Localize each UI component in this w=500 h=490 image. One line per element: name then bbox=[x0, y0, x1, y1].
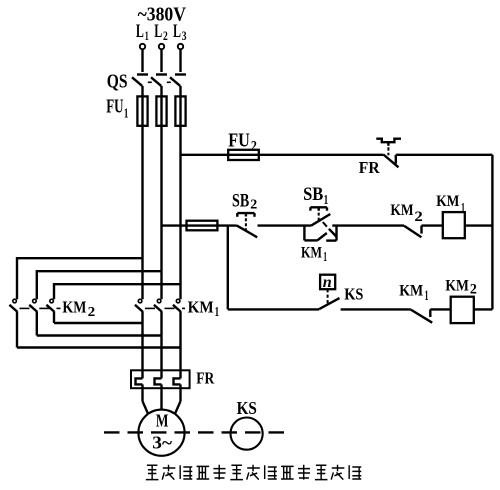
svg-text:KM: KM bbox=[188, 297, 214, 316]
svg-text:2: 2 bbox=[414, 209, 422, 225]
svg-text:1: 1 bbox=[124, 106, 129, 121]
svg-text:KM: KM bbox=[445, 278, 469, 295]
svg-text:KM: KM bbox=[390, 202, 413, 219]
svg-text:n: n bbox=[323, 274, 332, 291]
svg-text:1: 1 bbox=[461, 200, 465, 216]
svg-text:SB: SB bbox=[232, 190, 249, 211]
svg-text:1: 1 bbox=[145, 28, 149, 43]
svg-text:SB: SB bbox=[303, 184, 323, 205]
svg-text:1: 1 bbox=[215, 304, 220, 319]
svg-text:2: 2 bbox=[470, 282, 477, 298]
svg-text:FU: FU bbox=[106, 96, 123, 118]
svg-text:3~: 3~ bbox=[152, 432, 172, 452]
svg-text:L: L bbox=[173, 21, 181, 42]
svg-text:KM: KM bbox=[436, 193, 459, 210]
svg-text:KM: KM bbox=[399, 282, 423, 299]
svg-text:L: L bbox=[154, 21, 162, 42]
svg-text:1: 1 bbox=[323, 249, 327, 264]
svg-text:KS: KS bbox=[344, 284, 363, 303]
svg-text:1: 1 bbox=[324, 193, 329, 208]
svg-text:L: L bbox=[136, 21, 144, 42]
svg-text:QS: QS bbox=[107, 70, 128, 92]
svg-text:1: 1 bbox=[425, 288, 429, 304]
svg-text:2: 2 bbox=[163, 28, 168, 43]
svg-text:KM: KM bbox=[301, 245, 322, 262]
svg-text:KS: KS bbox=[237, 398, 257, 418]
svg-text:FU: FU bbox=[228, 130, 250, 152]
svg-text:KM: KM bbox=[62, 297, 86, 316]
svg-text:FR: FR bbox=[359, 158, 381, 177]
svg-text:M: M bbox=[156, 411, 169, 431]
svg-text:2: 2 bbox=[250, 197, 257, 212]
svg-text:2: 2 bbox=[251, 138, 257, 154]
svg-text:3: 3 bbox=[182, 28, 187, 43]
svg-text:2: 2 bbox=[88, 304, 96, 319]
svg-text:FR: FR bbox=[196, 369, 215, 388]
